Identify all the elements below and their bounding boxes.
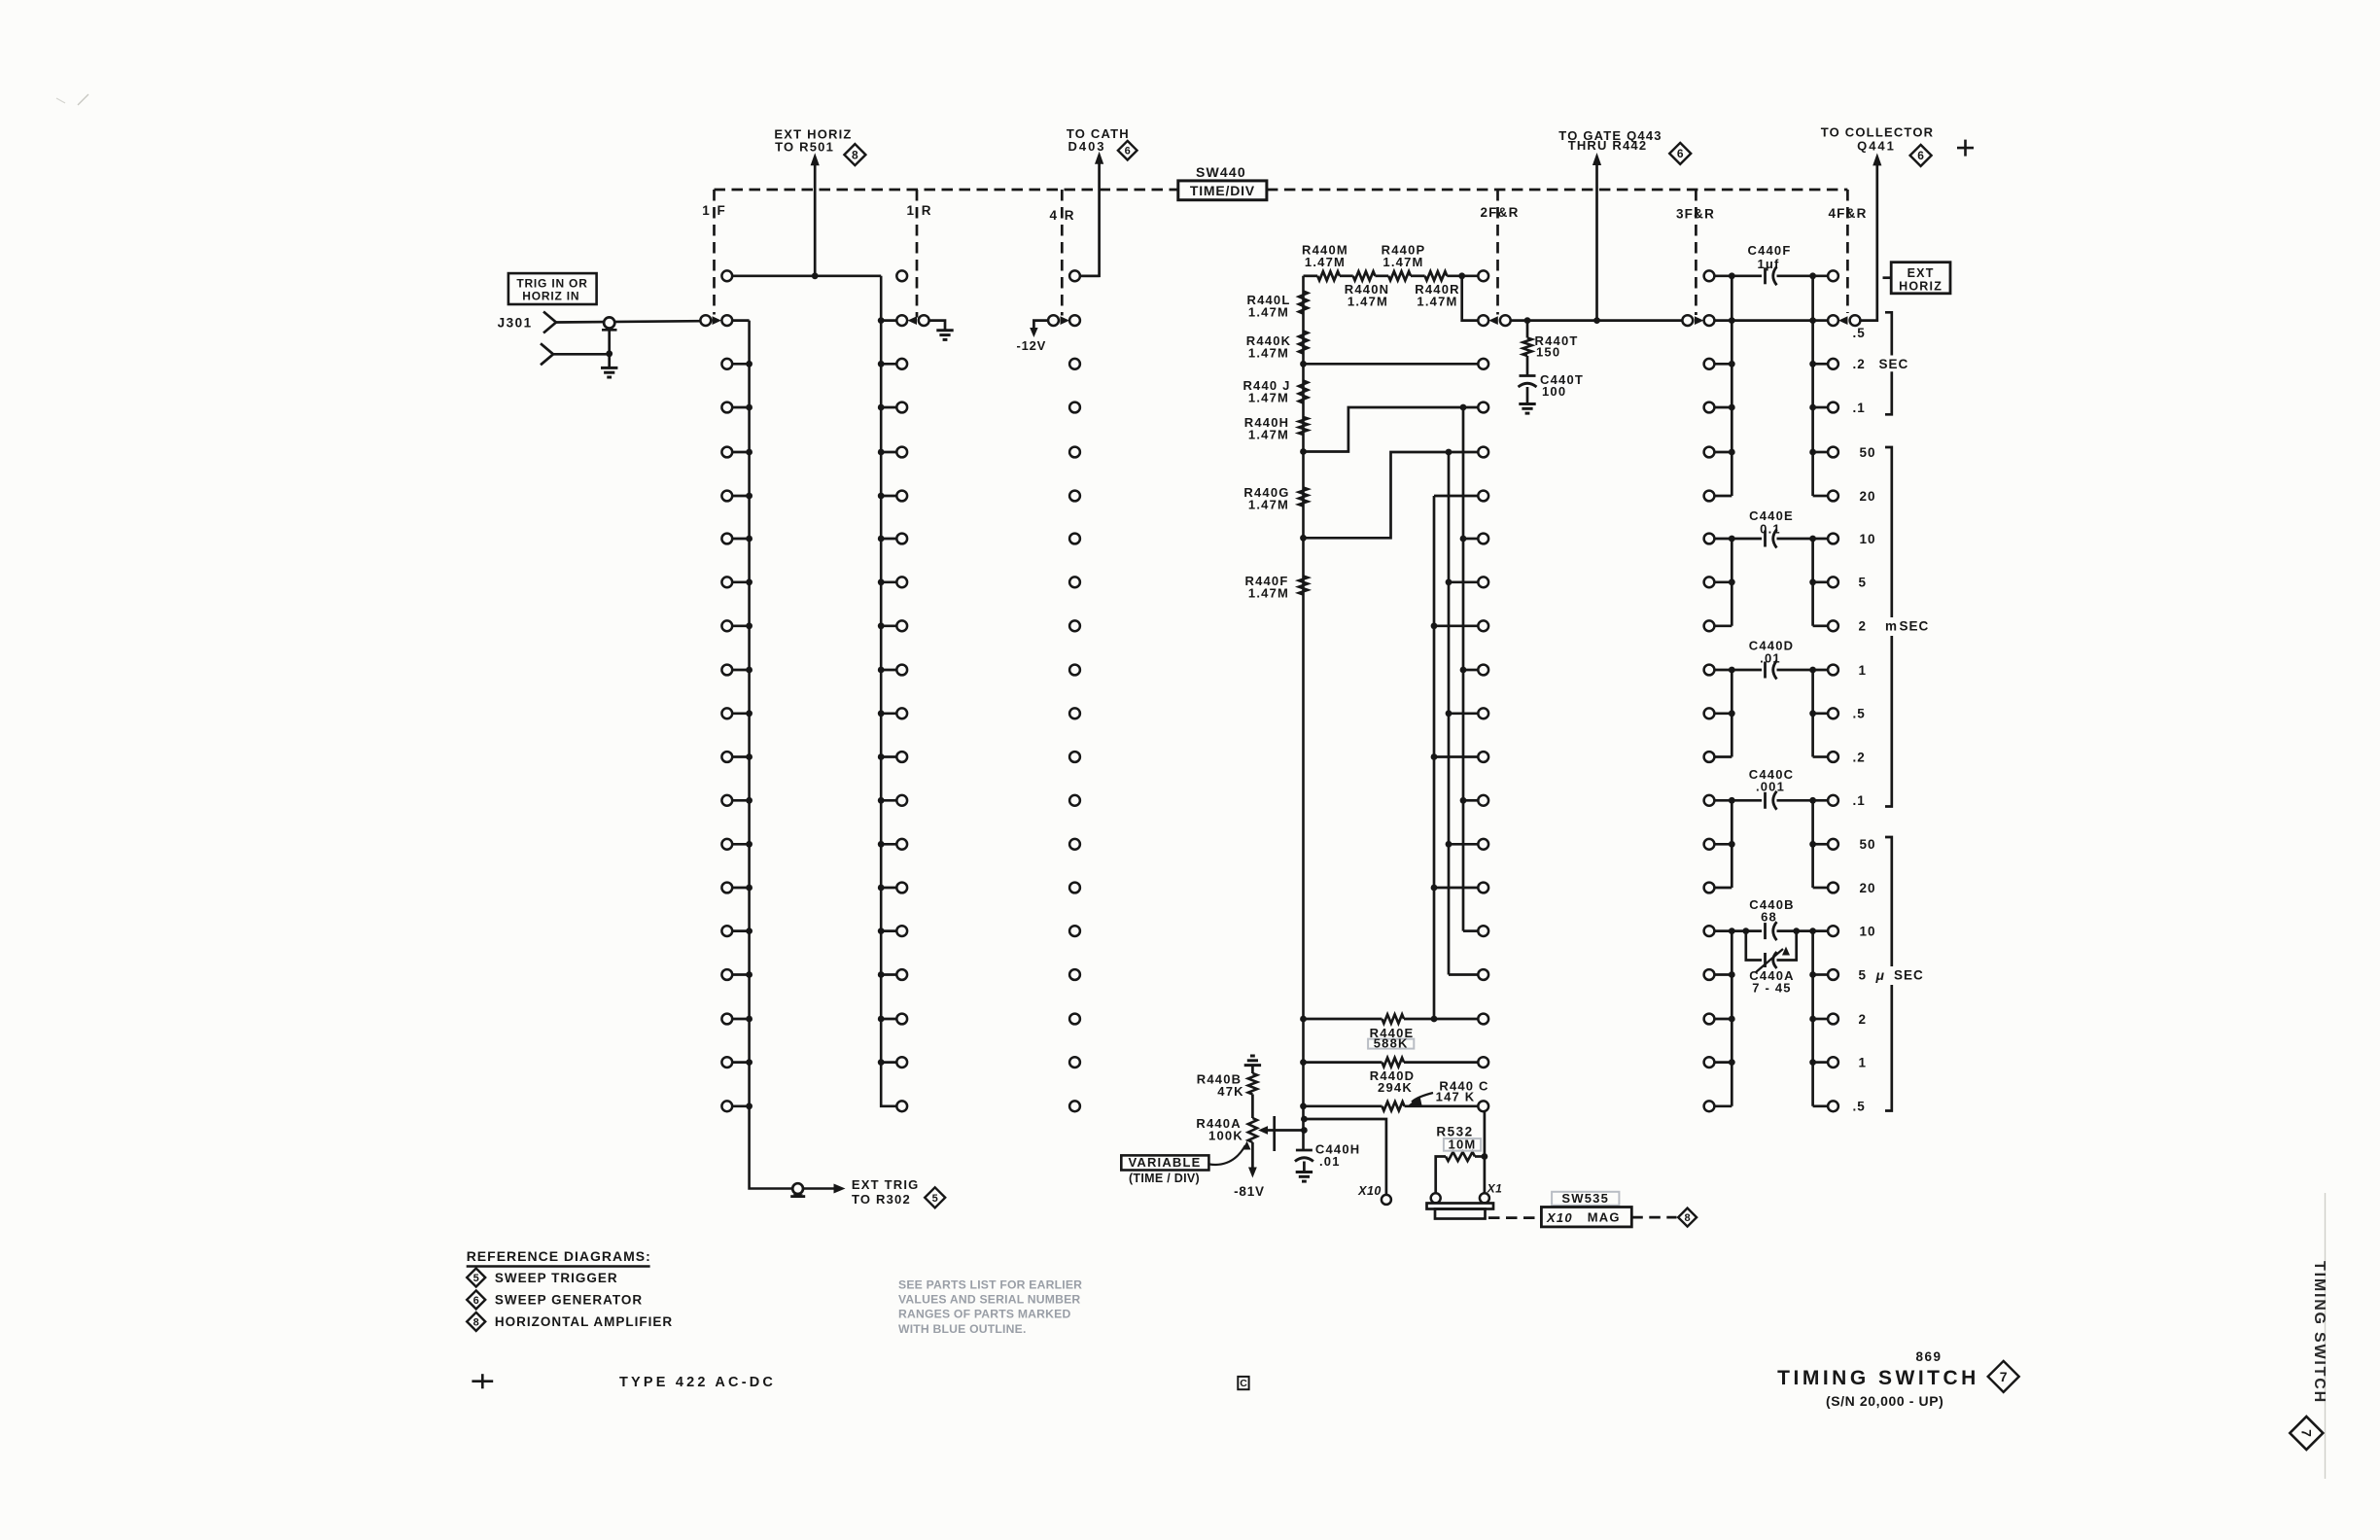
wire -12V feed — [1030, 321, 1048, 337]
svg-text:X10: X10 — [1546, 1210, 1573, 1225]
svg-text:TO R302: TO R302 — [852, 1192, 911, 1207]
wire C440E left bus — [1731, 539, 1733, 626]
wire C440B left bus — [1729, 931, 1735, 1106]
tab TIMING SWITCH vertical — [2311, 1261, 2327, 1404]
contact 4R row1 — [1069, 270, 1100, 281]
svg-text:1: 1 — [1859, 663, 1868, 678]
node X10 takeoff — [1301, 1116, 1308, 1123]
svg-text:2F&R: 2F&R — [1480, 205, 1519, 220]
resistor R440L — [1246, 292, 1308, 320]
svg-text:5: 5 — [932, 1193, 938, 1205]
svg-text:(TIME / DIV): (TIME / DIV) — [1129, 1172, 1200, 1185]
node chain to wiper — [1458, 272, 1465, 279]
svg-text:.2: .2 — [1853, 357, 1866, 371]
wire dashed section 4F&R — [1846, 190, 1849, 313]
svg-text:1.47M: 1.47M — [1347, 295, 1388, 309]
svg-text:1.47M: 1.47M — [1417, 295, 1457, 309]
wire R440A to -81V — [1248, 1142, 1257, 1178]
svg-text:SW535: SW535 — [1561, 1191, 1609, 1206]
resistor R532 — [1436, 1152, 1485, 1193]
svg-text:1.47M: 1.47M — [1305, 255, 1346, 269]
svg-text:6: 6 — [473, 1295, 479, 1307]
svg-text:10M: 10M — [1449, 1137, 1477, 1151]
svg-text:5: 5 — [473, 1273, 479, 1284]
svg-text:8: 8 — [1685, 1212, 1691, 1224]
power -12V label — [1016, 338, 1046, 353]
svg-text:6: 6 — [1125, 146, 1131, 157]
contact 2F&R row3 — [1478, 359, 1488, 369]
svg-text:m: m — [1885, 619, 1898, 634]
note SEE PARTS LIST — [898, 1278, 1082, 1336]
wire to X10 contact — [1304, 1119, 1386, 1195]
svg-text:20: 20 — [1860, 881, 1876, 895]
svg-text:4F&R: 4F&R — [1828, 206, 1867, 221]
resistor R440J — [1242, 378, 1308, 405]
svg-text:TO R501: TO R501 — [775, 140, 834, 155]
diagram ref diamond 6 (sweep generator) b — [1669, 143, 1691, 164]
range value labels — [1853, 326, 1876, 1114]
wire dashed section 1F — [713, 190, 716, 315]
diagram ref diamond 6 (sweep generator) — [1118, 141, 1137, 160]
resistor R440K — [1246, 332, 1308, 361]
wire 1R ground stub — [929, 321, 945, 331]
svg-text:μ: μ — [1875, 967, 1886, 983]
wire to EXT HORIZ TO R501 — [811, 153, 820, 276]
wire 1F rotor bus — [732, 321, 833, 1189]
wire staircase to row4 — [1300, 407, 1478, 455]
switch X10 MAG box — [1541, 1207, 1631, 1227]
diagram ref diamond 5 list — [467, 1269, 485, 1287]
node 1F — [702, 203, 727, 218]
wire bundle vertical B — [1448, 452, 1451, 975]
wire C440C right bus — [1811, 800, 1814, 888]
wire dashed SW535 link right — [1631, 1216, 1676, 1219]
svg-text:5: 5 — [1859, 576, 1868, 590]
resistor R440D — [1370, 1058, 1415, 1095]
svg-text:SWEEP GENERATOR: SWEEP GENERATOR — [495, 1293, 643, 1308]
diagram ref diamond 8 (horizontal amplifier) — [844, 144, 865, 165]
svg-text:0.1: 0.1 — [1760, 522, 1781, 537]
resistor R440H — [1244, 415, 1308, 442]
svg-text:294K: 294K — [1378, 1080, 1413, 1095]
node 2F&R — [1480, 205, 1519, 220]
heading REFERENCE DIAGRAMS — [467, 1248, 651, 1267]
wire to TO COLLECTOR Q441 — [1860, 153, 1881, 320]
subtitle serial range — [1826, 1393, 1943, 1409]
bracket mSEC — [1885, 447, 1892, 807]
wire row18 R440E — [1300, 1016, 1478, 1023]
svg-text:1.47M: 1.47M — [1248, 305, 1289, 320]
wire rotor row2 right — [1714, 319, 1812, 322]
wire C440F left bus — [1729, 276, 1735, 496]
svg-text:2: 2 — [1859, 619, 1868, 634]
svg-text:1.47M: 1.47M — [1248, 498, 1289, 512]
contact 4R wiper pair — [1048, 315, 1080, 326]
ground 1R — [936, 331, 953, 340]
contacts 1F rows 3-20 — [721, 359, 752, 1111]
resistor R440R — [1415, 271, 1459, 308]
svg-text:10: 10 — [1860, 924, 1876, 938]
contacts 3F&R rows 13-15 — [1704, 795, 1735, 893]
wire C440D left bus — [1731, 670, 1733, 757]
svg-text:SEC: SEC — [1900, 619, 1930, 634]
wire chain drop to 2F wiper — [1462, 276, 1479, 321]
wire arrow EXT TRIG — [834, 1184, 846, 1194]
capacitor C440E — [1714, 508, 1828, 548]
ref item SWEEP GENERATOR — [495, 1293, 643, 1308]
svg-text:TIMING SWITCH: TIMING SWITCH — [2311, 1261, 2327, 1404]
svg-text:TO COLLECTOR: TO COLLECTOR — [1821, 124, 1934, 139]
contacts 4F&R rows 13-15 — [1809, 795, 1838, 893]
contact 2F&R row19 — [1478, 1057, 1488, 1067]
contacts 2F&R rows 6-17 — [1431, 491, 1489, 980]
svg-text:8: 8 — [473, 1316, 479, 1328]
wire dashed section 3F&R — [1695, 190, 1697, 315]
svg-text:SEE PARTS LIST FOR EARLIER: SEE PARTS LIST FOR EARLIER — [898, 1278, 1082, 1292]
svg-text:150: 150 — [1536, 345, 1560, 360]
svg-text:SW440: SW440 — [1196, 164, 1246, 180]
svg-text:SEC: SEC — [1879, 357, 1909, 371]
wire dashed section 4R — [1061, 190, 1064, 316]
wire dashed section 1R — [916, 190, 919, 318]
contact 2F&R row5 — [1478, 447, 1488, 458]
svg-text:.1: .1 — [1853, 401, 1866, 415]
wire C440E right bus — [1811, 539, 1814, 626]
svg-text:TRIG IN OR: TRIG IN OR — [516, 276, 587, 290]
bracket uSEC — [1885, 837, 1892, 1111]
contacts 3F&R rows 10-12 — [1704, 665, 1735, 762]
contact SW535 X10 terminal (left) — [1431, 1193, 1441, 1203]
box EXT HORIZ — [1883, 262, 1951, 294]
capacitor C440T — [1519, 372, 1585, 404]
svg-text:.01: .01 — [1760, 651, 1781, 666]
svg-text:2: 2 — [1859, 1012, 1868, 1027]
wire R440A wiper — [1258, 1116, 1308, 1151]
svg-text:1.47M: 1.47M — [1248, 586, 1289, 601]
wire C440F right bus — [1809, 276, 1816, 496]
svg-text:8: 8 — [852, 148, 858, 161]
capacitor C440B — [1714, 897, 1828, 940]
title TIMING SWITCH — [1777, 1367, 1979, 1389]
svg-text:7: 7 — [2298, 1429, 2314, 1437]
svg-text:TIME/DIV: TIME/DIV — [1190, 183, 1255, 198]
svg-text:.2: .2 — [1853, 750, 1866, 764]
node R440T takeoff — [1524, 317, 1531, 324]
connector J301 pin 1 chevron — [543, 312, 556, 333]
resistor R440N — [1345, 271, 1389, 308]
contact 3F&R wiper pair — [1682, 315, 1714, 326]
svg-text:20: 20 — [1860, 489, 1876, 504]
drawing number 869 — [1915, 1349, 1942, 1364]
diagram ref diamond 7 title — [1988, 1361, 2019, 1392]
svg-text:TYPE 422 AC-DC: TYPE 422 AC-DC — [619, 1375, 776, 1390]
svg-text:.5: .5 — [1853, 1100, 1866, 1114]
tab diamond 7 — [2290, 1417, 2323, 1450]
connector EXT TRIG coax hub — [790, 1183, 805, 1197]
capacitor C440H — [1295, 1142, 1360, 1172]
node 3F&R — [1676, 207, 1715, 222]
wire C440D right bus — [1811, 670, 1814, 757]
contact 1F wiper pair — [700, 315, 732, 326]
svg-text:.001: .001 — [1756, 780, 1785, 794]
wire J301 center conductor — [556, 321, 700, 322]
ref item HORIZONTAL AMPLIFIER — [495, 1314, 673, 1329]
contact 2F&R row20 — [1478, 1101, 1488, 1111]
registration cross bottom left — [472, 1374, 493, 1388]
resistor R440M — [1302, 243, 1348, 281]
contacts 4F&R rows 7-9 — [1809, 534, 1838, 632]
bracket SEC — [1885, 312, 1892, 414]
node TO GATE Q443 label — [1558, 128, 1662, 153]
wire C440B right bus — [1809, 931, 1816, 1106]
copyright mark — [1238, 1377, 1248, 1389]
svg-text:J301: J301 — [498, 316, 533, 331]
switch SW440 label — [1196, 164, 1246, 180]
contacts 4F&R rows3-6 — [1813, 359, 1838, 502]
node TO CATH D403 label — [1067, 126, 1130, 154]
contacts 4F&R rows 10-12 — [1809, 665, 1838, 762]
node 4F&R — [1828, 206, 1867, 221]
ground C440T — [1519, 404, 1535, 414]
wire VARIABLE pointer — [1209, 1141, 1251, 1165]
contacts 3F&R rows16-20 — [1704, 926, 1732, 1111]
node A takeoff — [1460, 404, 1467, 411]
contacts 1R rows 3-19 — [878, 359, 907, 1067]
ground C440H — [1296, 1172, 1312, 1182]
connector J301 coax hub — [602, 317, 617, 353]
svg-text:-12V: -12V — [1016, 338, 1046, 353]
node B takeoff — [1446, 449, 1452, 456]
wire bundle vertical C — [1433, 496, 1436, 1019]
svg-text:50: 50 — [1860, 837, 1876, 852]
wire to TO GATE Q443 — [1592, 153, 1601, 321]
contact 1F row1 — [721, 270, 732, 281]
svg-text:1.47M: 1.47M — [1382, 255, 1423, 269]
svg-text:REFERENCE DIAGRAMS:: REFERENCE DIAGRAMS: — [467, 1248, 651, 1264]
contacts 3F&R rows 7-9 — [1704, 534, 1735, 632]
box TRIG IN OR HORIZ IN — [508, 273, 597, 304]
contact 1R wiper pair — [878, 315, 929, 326]
svg-text:.01: .01 — [1319, 1154, 1341, 1169]
svg-text:6: 6 — [1677, 147, 1684, 160]
contact X10 — [1382, 1195, 1391, 1205]
svg-text:100: 100 — [1542, 384, 1566, 399]
node J301 shield junction — [606, 350, 612, 357]
node TO COLLECTOR Q441 label — [1821, 124, 1934, 153]
diagram ref diamond 6 list — [467, 1290, 485, 1309]
wire row20 R440C — [1300, 1102, 1478, 1109]
node 1R — [906, 203, 932, 218]
svg-text:WITH BLUE OUTLINE.: WITH BLUE OUTLINE. — [898, 1322, 1027, 1336]
unit SEC label — [1879, 357, 1909, 371]
contact 1R row1 (open) — [896, 270, 907, 281]
svg-text:7 - 45: 7 - 45 — [1752, 981, 1791, 996]
connector J301 pin 2 chevron — [541, 343, 553, 365]
contact SW535 X1 terminal — [1480, 1193, 1489, 1203]
resistor R532 value box — [1444, 1137, 1481, 1151]
wire 1F top contact row — [732, 274, 881, 277]
wire to TO CATH D403 — [1080, 152, 1103, 276]
diagram ref diamond 6 (sweep generator) c — [1910, 145, 1932, 166]
node EXT HORIZ TO R501 label — [774, 127, 852, 155]
svg-text:MAG: MAG — [1588, 1210, 1621, 1225]
resistor R440P — [1382, 243, 1426, 281]
svg-text:.5: .5 — [1853, 707, 1866, 721]
scan speckle top-left — [56, 94, 88, 105]
svg-text:1μf: 1μf — [1757, 257, 1779, 271]
contacts 3F&R rows3-6 — [1704, 359, 1732, 502]
svg-text:100K: 100K — [1208, 1128, 1243, 1142]
node EXT HORIZ takeoff — [812, 272, 819, 279]
diagram ref diamond 5 (sweep trigger) — [925, 1187, 945, 1207]
power -81V label — [1234, 1184, 1265, 1199]
svg-text:SWEEP TRIGGER: SWEEP TRIGGER — [495, 1271, 618, 1285]
contact 3F&R row1 — [1704, 270, 1715, 281]
svg-text:HORIZONTAL AMPLIFIER: HORIZONTAL AMPLIFIER — [495, 1314, 673, 1329]
ref item SWEEP TRIGGER — [495, 1271, 618, 1285]
wire J301 shield — [553, 353, 610, 356]
wire dashed switch gang bus (SW440) — [715, 189, 1848, 192]
svg-text:Q441: Q441 — [1857, 139, 1896, 154]
contact 2F&R row18 — [1478, 1014, 1488, 1025]
svg-text:HORIZ IN: HORIZ IN — [522, 289, 579, 302]
wire row3 from bus — [1300, 361, 1478, 367]
wire row20 contact to X1 — [1482, 1111, 1488, 1193]
capacitor C440A (variable) — [1746, 931, 1797, 996]
resistor R440B — [1197, 1066, 1257, 1118]
svg-text:869: 869 — [1915, 1349, 1942, 1364]
svg-text:THRU R442: THRU R442 — [1568, 138, 1648, 153]
capacitor C440C — [1714, 767, 1828, 810]
connector J301 label — [498, 316, 533, 331]
node EXT TRIG TO R302 label — [852, 1177, 920, 1207]
wire C440C left bus — [1731, 800, 1733, 888]
wire chain row1 — [1304, 274, 1479, 277]
svg-text:7: 7 — [2000, 1369, 2008, 1384]
wire row19 R440D — [1300, 1059, 1478, 1066]
contact 4F&R wiper pair — [1813, 315, 1861, 326]
svg-text:RANGES OF PARTS MARKED: RANGES OF PARTS MARKED — [898, 1308, 1071, 1321]
contact 2F&R wiper pair — [1478, 315, 1510, 326]
svg-text:1 R: 1 R — [906, 203, 932, 218]
wire J301 shield to ground — [608, 354, 611, 368]
svg-text:147 K: 147 K — [1436, 1089, 1476, 1103]
svg-text:SEC: SEC — [1894, 967, 1924, 982]
ground above R440B — [1244, 1056, 1261, 1066]
svg-text:VALUES AND SERIAL NUMBER: VALUES AND SERIAL NUMBER — [898, 1293, 1080, 1307]
resistor R440G — [1243, 485, 1308, 512]
capacitor C440F — [1714, 243, 1828, 285]
contact 4F&R row1 — [1828, 270, 1838, 281]
node TO GATE takeoff — [1593, 317, 1600, 324]
wire 1R rotor bus — [881, 276, 896, 1106]
svg-text:47K: 47K — [1217, 1084, 1243, 1099]
svg-text:50: 50 — [1860, 445, 1876, 460]
wire dashed SW535 link left — [1488, 1216, 1541, 1219]
svg-text:4 R: 4 R — [1049, 208, 1075, 223]
node X10 label — [1357, 1184, 1382, 1198]
svg-text:1.47M: 1.47M — [1248, 391, 1289, 405]
switch SW535 rotor body — [1427, 1204, 1494, 1219]
wire rotor row2 mid — [1511, 319, 1683, 322]
resistor R440C — [1382, 1102, 1405, 1110]
svg-text:EXT TRIG: EXT TRIG — [852, 1177, 920, 1192]
box VARIABLE (TIME/DIV) — [1121, 1155, 1208, 1185]
svg-text:6: 6 — [1917, 149, 1924, 162]
wire bundle vertical A — [1462, 407, 1465, 931]
svg-text:D403: D403 — [1067, 139, 1105, 154]
svg-text:5: 5 — [1859, 967, 1868, 982]
contacts 4R rows 3-20 (open) — [1069, 359, 1080, 1111]
unit mSEC label — [1885, 619, 1929, 634]
contacts 4F&R rows16-20 — [1813, 926, 1838, 1111]
svg-text:-81V: -81V — [1234, 1184, 1265, 1199]
svg-text:C440F: C440F — [1747, 243, 1791, 258]
switch SW535 label box — [1552, 1191, 1619, 1206]
svg-text:.5: .5 — [1853, 326, 1866, 340]
svg-text:HORIZ: HORIZ — [1899, 280, 1942, 294]
contact 2F&R row1 — [1478, 270, 1488, 281]
resistor R532 label — [1436, 1125, 1473, 1139]
svg-text:3F&R: 3F&R — [1676, 207, 1715, 222]
svg-text:68: 68 — [1761, 910, 1777, 925]
svg-text:X1: X1 — [1487, 1182, 1503, 1196]
svg-text:588K: 588K — [1374, 1035, 1409, 1050]
resistor R440E value box — [1368, 1035, 1414, 1050]
contact 1R row20 — [896, 1101, 907, 1111]
diagram ref diamond 8 list — [467, 1312, 485, 1331]
resistor R440E — [1370, 1014, 1415, 1040]
resistor R440F — [1244, 574, 1308, 601]
svg-text:10: 10 — [1860, 532, 1876, 546]
unit uSEC label — [1875, 967, 1924, 983]
page fold line — [2325, 1193, 2327, 1479]
contact 2F&R row4 — [1478, 402, 1488, 413]
title TYPE 422 AC-DC — [619, 1375, 776, 1390]
svg-text:X10: X10 — [1357, 1184, 1382, 1198]
registration cross top right — [1957, 140, 1974, 157]
resistor R440T — [1522, 321, 1578, 376]
svg-text:VARIABLE: VARIABLE — [1128, 1155, 1201, 1170]
switch SW440 TIME/DIV box — [1178, 181, 1267, 200]
svg-text:TIMING SWITCH: TIMING SWITCH — [1777, 1367, 1979, 1389]
node X1 label — [1487, 1182, 1503, 1196]
capacitor C440D — [1714, 639, 1828, 680]
wire dashed section 2F&R — [1496, 190, 1499, 315]
wire staircase to row5 — [1300, 452, 1478, 542]
svg-text:(S/N 20,000 - UP): (S/N 20,000 - UP) — [1826, 1393, 1943, 1409]
ground J301 shield — [601, 367, 617, 377]
potentiometer R440A — [1196, 1116, 1257, 1142]
svg-text:1.47M: 1.47M — [1248, 428, 1289, 442]
svg-text:EXT: EXT — [1907, 266, 1935, 280]
svg-text:1 F: 1 F — [702, 203, 727, 218]
diagram ref diamond 8 (horizontal amplifier) b — [1678, 1208, 1697, 1227]
svg-text:1: 1 — [1859, 1055, 1868, 1069]
svg-text:1.47M: 1.47M — [1248, 346, 1289, 361]
node 4R — [1049, 208, 1075, 223]
svg-text:C: C — [1240, 1378, 1247, 1389]
wire timing bus — [1302, 276, 1305, 1150]
svg-text:.1: .1 — [1853, 793, 1866, 808]
resistor R440C label — [1409, 1078, 1489, 1104]
